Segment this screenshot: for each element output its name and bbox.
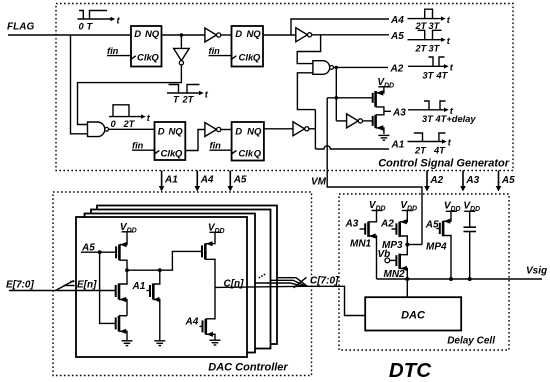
waveform A4 2T-3T	[408, 9, 451, 31]
wire A3 out	[384, 110, 391, 112]
wire Vsig line	[377, 278, 543, 280]
svg-text:3T: 3T	[423, 71, 435, 81]
svg-text:A2: A2	[429, 175, 443, 186]
svg-text:3T: 3T	[422, 114, 434, 124]
arrow A4 down	[195, 171, 214, 192]
svg-text:Delay Cell: Delay Cell	[447, 336, 495, 347]
inverter I4	[205, 123, 221, 137]
wire fin to FF2 Clk	[209, 55, 232, 57]
svg-text:VM: VM	[311, 177, 327, 188]
wire VM	[327, 98, 422, 245]
VDD label (panel left)	[120, 222, 137, 235]
wire I1 to FF2.D	[221, 34, 232, 36]
wire A2 branch down	[335, 67, 337, 121]
svg-text:Q: Q	[254, 149, 262, 160]
svg-text:E[7:0]: E[7:0]	[6, 280, 34, 291]
waveform T-2T	[167, 85, 209, 105]
svg-text:DTC: DTC	[389, 359, 432, 382]
inverter I5	[293, 122, 309, 136]
svg-text:A1: A1	[132, 281, 146, 292]
VDD label (MP4)	[444, 200, 461, 213]
svg-text:DD: DD	[384, 83, 394, 90]
svg-text:2T: 2T	[415, 44, 428, 54]
bus slash E	[56, 281, 75, 291]
svg-text:MN1: MN1	[350, 239, 372, 250]
svg-text:NQ: NQ	[247, 127, 262, 138]
wire C[n] out	[215, 286, 303, 287]
VDD label (capacitor)	[463, 200, 480, 213]
arrow A5 down	[228, 171, 247, 192]
waveform A1 2T-4T	[408, 133, 452, 156]
DAC block	[365, 297, 461, 330]
svg-text:A4: A4	[390, 15, 404, 26]
PMOS MP4	[437, 211, 452, 279]
junction MP3 drain / VM	[405, 243, 409, 247]
wire fin to FF3 Clk	[132, 149, 155, 151]
svg-text:Clk: Clk	[238, 149, 254, 160]
svg-text:C[7:0]: C[7:0]	[310, 276, 339, 287]
capacitor C1	[464, 211, 477, 279]
flip-flop FF4	[232, 122, 264, 161]
svg-text:E[n]: E[n]	[77, 280, 97, 291]
svg-text:DD: DD	[407, 205, 417, 212]
wire I5 output to A1 node	[309, 128, 316, 130]
DAC Controller dashed box	[53, 192, 312, 376]
svg-text:2T: 2T	[415, 21, 428, 31]
svg-text:DD: DD	[215, 228, 225, 235]
ground (under MA4)	[210, 340, 221, 345]
svg-text:A4: A4	[185, 317, 199, 328]
svg-text:2T: 2T	[414, 146, 427, 156]
svg-text:A5: A5	[233, 175, 247, 186]
NMOS MA4	[200, 287, 216, 340]
wire A5 branch down to NMOS M5 gate	[100, 252, 116, 323]
wire fin to FF4 Clk	[210, 149, 232, 151]
svg-text:A4: A4	[200, 175, 214, 186]
wire E[7:0] input	[9, 290, 116, 292]
wire NAND N2 lower input from A1 node	[297, 73, 315, 110]
svg-text:fin: fin	[209, 46, 221, 56]
svg-text:A3: A3	[345, 219, 359, 230]
wire FLAG branch down to NAND N1 input	[71, 35, 88, 134]
arrow A5 down (right)	[496, 171, 515, 192]
wire MP3 node to VM	[407, 244, 422, 246]
arrow A2 down	[424, 171, 443, 192]
junction A5 branch	[98, 250, 102, 254]
wire A4 branch up	[291, 19, 389, 35]
inverter I3	[336, 114, 372, 128]
wire A5 branch to NAND N2 upper input	[297, 35, 320, 64]
svg-text:Control Signal Generator: Control Signal Generator	[378, 158, 510, 170]
svg-text:fin: fin	[132, 141, 144, 151]
junction A2 branch	[335, 66, 338, 69]
svg-text:A5: A5	[390, 31, 404, 42]
ground (under M5)	[122, 341, 133, 346]
svg-text:0: 0	[111, 119, 117, 129]
svg-text:D: D	[134, 29, 141, 40]
bubble Vb	[385, 258, 390, 263]
svg-text:4T+delay: 4T+delay	[435, 114, 477, 124]
flip-flop FF3	[155, 122, 186, 160]
Delay Cell dashed box	[339, 194, 509, 350]
svg-text:Q: Q	[151, 53, 159, 64]
svg-text:Clk: Clk	[161, 149, 177, 160]
wire A1 with hop over VM	[315, 146, 389, 149]
wire I4 to FF4.D	[221, 129, 232, 131]
NAND N2	[313, 61, 334, 75]
svg-text:NQ: NQ	[246, 29, 261, 40]
svg-text:A1: A1	[164, 175, 178, 186]
VDD label (MP3)	[400, 200, 417, 213]
svg-text:DD: DD	[127, 227, 137, 234]
PMOS MP3	[392, 211, 408, 245]
flip-flop FF2	[232, 26, 264, 67]
svg-text:D: D	[235, 29, 242, 40]
inverter I2 (A5)	[296, 28, 312, 42]
svg-text:A2: A2	[380, 219, 394, 230]
wire FLAG input	[8, 34, 130, 36]
panel P2	[85, 214, 256, 353]
wire A5 to PMOS gate	[81, 251, 116, 253]
wire C[7:0] to DAC	[303, 286, 365, 315]
NMOS M1 (A3 stage)	[373, 111, 384, 134]
NMOS MN2	[390, 254, 408, 279]
svg-text:D: D	[235, 127, 242, 138]
svg-text:fin: fin	[107, 46, 119, 56]
VDD label (A3 stage)	[377, 77, 394, 90]
waveform A3 3T-4T+delay	[408, 101, 476, 124]
junction at PMOS gate row	[335, 96, 339, 100]
wire A2 out	[334, 66, 389, 68]
dots ...	[259, 277, 261, 279]
svg-text:Clk: Clk	[239, 53, 255, 64]
PMOS P1 (A3 stage)	[373, 87, 384, 112]
wire A1 node vertical (to NAND N2 input and A1 line)	[314, 110, 316, 149]
NMOS ME (E[n])	[116, 270, 127, 316]
svg-text:4T: 4T	[433, 146, 446, 156]
bus slash C	[294, 277, 307, 288]
NAND N1 (bottom row)	[88, 122, 109, 137]
wire INV-D output to NAND N1 input	[78, 65, 182, 125]
wire FF3.Q up to inverter I4	[185, 130, 205, 151]
svg-text:DAC Controller: DAC Controller	[208, 362, 288, 374]
svg-text:fin: fin	[210, 141, 222, 151]
PMOS MPC (output stage)	[202, 232, 215, 287]
junction FF1 out	[180, 33, 184, 37]
wire FF2.NQ out	[263, 34, 296, 36]
wire gate row to PMOS P1	[327, 97, 373, 99]
svg-text:Clk: Clk	[137, 53, 153, 64]
wire A5 out	[312, 34, 389, 36]
junction capacitor	[468, 277, 472, 281]
NMOS MA1	[147, 270, 160, 341]
wire DAC feed	[406, 279, 408, 297]
wire NAND N1 output to FF3.D	[109, 128, 155, 130]
arrow A1 down	[159, 171, 178, 192]
svg-text:DAC: DAC	[401, 310, 426, 322]
NMOS M5 (A5 lower)	[116, 316, 127, 341]
svg-text:3T: 3T	[429, 44, 441, 54]
arrow A3 down	[460, 171, 479, 192]
Control Signal Generator dashed box	[56, 4, 513, 171]
svg-text:0: 0	[79, 22, 85, 32]
svg-text:A3: A3	[392, 107, 406, 118]
waveform 0-T	[78, 11, 121, 32]
VDD label (panel right)	[208, 222, 225, 235]
wire fin to FF1 Clk	[107, 55, 130, 57]
inverter INV-D (down)	[174, 35, 190, 65]
junction MP4 drain	[449, 277, 453, 281]
junction MN2 source	[405, 277, 409, 281]
bus lines from back panels	[255, 278, 307, 287]
ground (A3 stage)	[378, 135, 389, 140]
svg-text:D: D	[158, 127, 165, 138]
svg-text:A2: A2	[390, 64, 404, 75]
svg-text:NQ: NQ	[168, 127, 183, 138]
svg-text:2T: 2T	[182, 95, 195, 105]
svg-text:FLAG: FLAG	[7, 22, 34, 33]
panel P3	[91, 210, 271, 349]
ground (under MA1)	[154, 341, 165, 346]
flip-flop FF1	[131, 26, 162, 67]
svg-text:A1: A1	[391, 140, 405, 151]
PMOS MP-A5 (panel)	[116, 232, 127, 270]
wire FF1.NQ to inverter I1	[161, 34, 205, 36]
VDD label (MN1)	[369, 200, 386, 213]
svg-text:MP4: MP4	[426, 242, 447, 253]
svg-text:NQ: NQ	[145, 29, 160, 40]
svg-text:A5: A5	[501, 175, 515, 186]
svg-text:4T: 4T	[436, 71, 449, 81]
svg-text:Q: Q	[175, 149, 183, 160]
waveform A2 3T-4T	[408, 57, 454, 81]
node X wire	[127, 251, 202, 270]
NMOS MN1	[360, 211, 377, 280]
svg-text:3T: 3T	[429, 21, 441, 31]
waveform 0-2T	[109, 105, 151, 129]
svg-text:Q: Q	[253, 53, 261, 64]
svg-text:A3: A3	[465, 175, 479, 186]
svg-text:2T: 2T	[123, 119, 136, 129]
wire FF4.NQ to inverter I5	[264, 128, 293, 130]
panel P1 (front)	[76, 217, 247, 357]
svg-text:Vsig: Vsig	[526, 266, 547, 277]
waveform A5 2T-3T	[408, 30, 451, 53]
panel P4 (backmost)	[97, 206, 277, 345]
inverter I1	[205, 28, 221, 42]
wire MP3 node down to MN2	[400, 245, 408, 255]
